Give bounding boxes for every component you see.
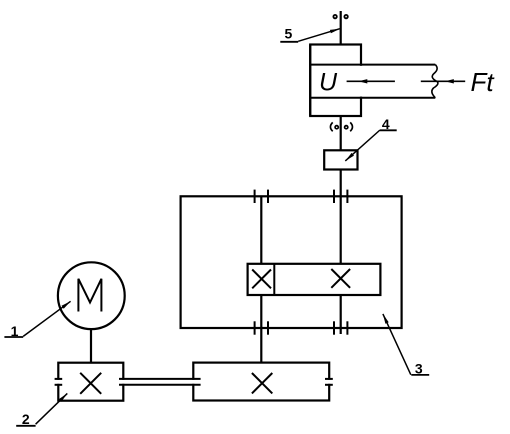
frame 3 (housing) (181, 196, 402, 328)
bearing gap on left edge of box 2 (55, 379, 63, 385)
svg-text:3: 3 (415, 360, 423, 376)
coupling double line between box 2 and wide box (119, 379, 201, 385)
break squiggle at right end of bar (432, 65, 438, 98)
bearing ticks top edge, left shaft (255, 190, 268, 203)
gear cross left (252, 270, 271, 289)
velocity arrow inside bar (347, 79, 395, 83)
bearing gap on right edge of box 2 (121, 380, 126, 384)
bearing gap on left edge of wide box (191, 380, 196, 384)
svg-text:U: U (319, 69, 338, 97)
gearbox divider (273, 264, 275, 295)
overdraw left edge of U-box (309, 45, 311, 117)
force arrow Ft (421, 79, 465, 83)
motor letter M (78, 279, 101, 312)
bearing ticks bottom edge, right shaft (334, 321, 347, 334)
wide gearbox at bottom (193, 363, 329, 401)
leader line for label 3 (383, 314, 429, 375)
svg-text:1: 1 (11, 323, 19, 339)
bearing gap on right edge of wide box (325, 379, 333, 385)
coupling box 4 (324, 150, 357, 169)
gearbox block inside frame (248, 264, 381, 295)
svg-text:2: 2 (22, 411, 30, 427)
leader line for label 1 (4, 301, 70, 337)
gear cross in wide box (252, 373, 272, 393)
svg-text:4: 4 (382, 116, 390, 132)
gear cross in box 2 (80, 373, 101, 394)
gear cross right (331, 269, 350, 288)
wire: motor shaft down to box 2 (90, 329, 92, 363)
wire: vertical shaft above slider U-box (340, 11, 342, 45)
motor M circle (58, 262, 125, 329)
leader line for label 5 (280, 29, 340, 42)
gearbox 2 (worm reducer) (58, 363, 123, 401)
wire: shaft from coupling 4 to frame (340, 170, 342, 197)
svg-text:Ft: Ft (471, 67, 496, 97)
shaft II (left vertical) (260, 196, 262, 362)
wire: shaft from U-box down to coupling 4 (340, 116, 342, 150)
rack bar carrying force Ft (310, 65, 435, 98)
shaft III (right vertical inside frame) (340, 196, 342, 334)
svg-text:5: 5 (285, 26, 293, 42)
guide rollers (o o) at top of shaft (333, 15, 347, 18)
leader line for label 2 (16, 393, 67, 425)
slider block U (screw nut housing) (310, 45, 361, 117)
bearing ticks bottom edge, left shaft (255, 321, 268, 334)
leader line for label 4 (345, 130, 396, 161)
bearing ticks top edge, right shaft (334, 190, 347, 203)
nut symbol (o o) (330, 122, 352, 131)
